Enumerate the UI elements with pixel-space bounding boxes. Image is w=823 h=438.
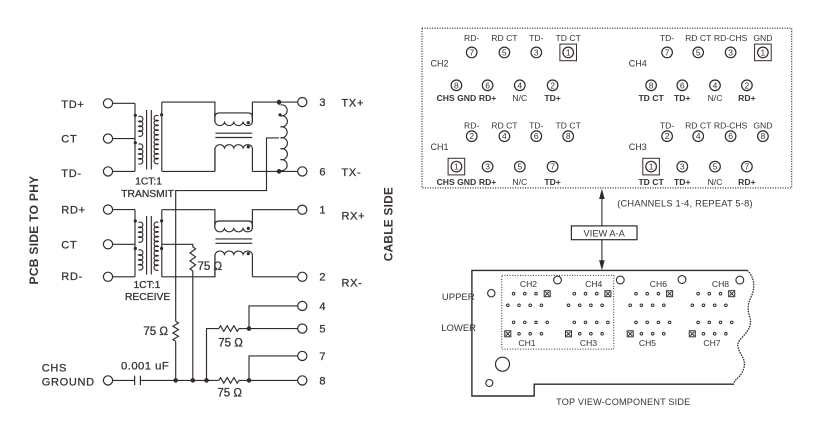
svg-text:CH4: CH4 (629, 59, 647, 69)
common-mode choke L3 top winding (215, 220, 253, 232)
CH5 pin pad (640, 333, 643, 336)
PCB torn right edge (734, 271, 754, 385)
pin 1 RX+ (298, 205, 366, 223)
T1 secondary polarity dot (160, 113, 163, 116)
svg-text:RD-CHS: RD-CHS (714, 121, 748, 131)
svg-text:RD CT: RD CT (491, 121, 518, 131)
label LOWER (441, 323, 476, 334)
CH7 pin pad (697, 321, 700, 324)
svg-text:2: 2 (745, 80, 750, 90)
svg-text:6: 6 (485, 80, 490, 90)
CH8 pin pad (719, 292, 722, 295)
terminal TD+ (103, 99, 112, 108)
svg-text:2: 2 (469, 131, 474, 141)
svg-text:75 Ω: 75 Ω (143, 326, 168, 338)
svg-text:TD-: TD- (660, 121, 674, 131)
CH7 pin pad (702, 333, 705, 336)
note channels 1-4 repeat 5-8 (617, 199, 753, 209)
svg-text:CH2: CH2 (520, 279, 537, 289)
wire CT to T1 primary (113, 138, 135, 140)
svg-text:PCB SIDE TO PHY: PCB SIDE TO PHY (27, 176, 41, 285)
svg-text:5: 5 (517, 162, 522, 172)
svg-text:8: 8 (319, 375, 325, 387)
CH8 pin pad (713, 304, 716, 307)
svg-text:VIEW A-A: VIEW A-A (584, 228, 626, 238)
CH2 channel label CH2 (431, 59, 449, 69)
resistor R4 75 ohm (pins 7/8) (215, 378, 242, 384)
wire TD- to T1 primary (113, 170, 135, 172)
label 1CT:1 RECEIVE (125, 280, 170, 303)
svg-text:CH6: CH6 (650, 279, 667, 289)
CH4 pin pad (584, 292, 587, 295)
node label TD- (61, 168, 81, 180)
svg-text:RD-: RD- (61, 271, 83, 283)
section arrow up to pin view (599, 189, 605, 226)
CH4 bottom label RD+ (738, 93, 755, 103)
svg-text:CHS: CHS (42, 363, 67, 375)
svg-text:GROUND: GROUND (42, 377, 95, 389)
CH6 pin 1 square pad (667, 291, 673, 297)
CH2 pin 1 square pad (544, 291, 550, 297)
svg-text:RECEIVE: RECEIVE (125, 292, 170, 303)
CH5 pin pad (646, 321, 649, 324)
CH2 pin 2 (547, 80, 558, 91)
svg-text:3: 3 (680, 162, 685, 172)
svg-text:N/C: N/C (512, 93, 527, 103)
CH4 top label GND (753, 33, 772, 43)
caption TOP VIEW-COMPONENT SIDE (556, 397, 690, 407)
wire choke L1 top to TX+ node (252, 102, 297, 122)
svg-text:TRANSMIT: TRANSMIT (121, 189, 174, 200)
svg-text:CT: CT (61, 134, 77, 146)
section arrow down to board view (599, 240, 605, 271)
CH3 pin pad (595, 321, 598, 324)
CH3 bottom label N/C (708, 177, 723, 187)
svg-text:RD+: RD+ (479, 177, 496, 187)
CH1 pin 4 (499, 131, 510, 142)
CH3 top label RD CT (685, 121, 712, 131)
CH4 pin 7 (662, 47, 673, 58)
CH6 pin pad (657, 292, 660, 295)
svg-text:3: 3 (534, 47, 539, 57)
svg-text:7: 7 (665, 47, 670, 57)
CH8 pin pad (725, 304, 728, 307)
mounting hole 2 (554, 276, 562, 284)
autotransformer L2 winding (279, 102, 287, 171)
CH8 pin pad (708, 292, 711, 295)
CH3 pin pad (584, 321, 587, 324)
svg-text:2: 2 (665, 131, 670, 141)
CH4 pin pad (595, 292, 598, 295)
CH4 pin pad (567, 304, 570, 307)
CH4 bottom label N/C (708, 93, 723, 103)
CH2 pin pad (524, 292, 527, 295)
choke L3 top winding dot (247, 227, 250, 230)
svg-text:4: 4 (696, 131, 701, 141)
svg-text:N/C: N/C (512, 177, 527, 187)
common-mode choke L1 top winding (215, 112, 253, 126)
svg-text:CH3: CH3 (629, 142, 647, 152)
CH4 pin 5 (693, 47, 704, 58)
transformer T1 core (147, 110, 152, 170)
CH1 pin pad (529, 333, 532, 336)
CH7 pin pad (713, 333, 716, 336)
board channel label CH8 (712, 279, 729, 289)
CH4 pin 2 (742, 80, 753, 91)
svg-text:LOWER: LOWER (441, 323, 476, 334)
node label CT (61, 239, 77, 251)
svg-text:RD-: RD- (464, 33, 479, 43)
CH2 pin 5 (499, 47, 510, 58)
CH2 pin 3 (531, 47, 542, 58)
node label TD+ (61, 99, 84, 111)
svg-text:8: 8 (761, 131, 766, 141)
CH7 pin 1 square pad (689, 331, 695, 337)
svg-text:1CT:1: 1CT:1 (135, 176, 162, 187)
board channel label CH7 (703, 338, 720, 348)
transformer T2 RECEIVE primary winding (135, 210, 143, 277)
resistor R1 75 ohm (transmit CT) (173, 321, 179, 380)
CH3 pin 1 (643, 158, 660, 175)
pin 4 (298, 301, 326, 313)
CH3 pin pad (607, 321, 610, 324)
CH2 pin pad (529, 304, 532, 307)
CH3 pin pad (590, 333, 593, 336)
CH3 top label TD- (660, 121, 674, 131)
svg-text:1: 1 (319, 205, 325, 217)
CH1 pin pad (546, 321, 549, 324)
CH6 pin pad (651, 304, 654, 307)
svg-text:TX-: TX- (342, 167, 362, 179)
CH5 pin pad (651, 333, 654, 336)
T2 primary polarity dots (134, 219, 137, 250)
CH4 top label RD CT (685, 33, 712, 43)
CH2 pin pad (535, 292, 538, 295)
svg-text:CHS GND: CHS GND (437, 93, 477, 103)
CH4 pin 6 (677, 80, 688, 91)
svg-text:6: 6 (534, 131, 539, 141)
CH6 pin pad (635, 292, 638, 295)
CH2 pin pad (512, 292, 515, 295)
svg-text:2: 2 (319, 272, 325, 284)
CH3 pin pad (573, 321, 576, 324)
svg-text:TD+: TD+ (61, 99, 84, 111)
wire T1 secondary top to choke L1 (162, 102, 215, 122)
CH2 bottom label TD+ (544, 93, 560, 103)
CH3 pin 6 (725, 131, 736, 142)
svg-text:0.001 uF: 0.001 uF (121, 360, 169, 372)
CH3 top label GND (753, 121, 772, 131)
CH1 pin pad (518, 333, 521, 336)
svg-text:TD CT: TD CT (638, 93, 664, 103)
svg-text:6: 6 (319, 166, 325, 178)
svg-text:CH5: CH5 (639, 338, 656, 348)
svg-text:3: 3 (728, 47, 733, 57)
CH2 bottom label RD+ (479, 93, 496, 103)
CH5 pin pad (657, 321, 660, 324)
wire L2 center tap to R1 (176, 138, 279, 321)
svg-text:CH1: CH1 (431, 142, 449, 152)
CH2 pin pad (540, 304, 543, 307)
CH2 top label RD- (464, 33, 479, 43)
terminal CT (receive) (103, 240, 112, 249)
svg-text:7: 7 (319, 351, 325, 363)
CH1 pin 1 (448, 158, 465, 175)
CH4 pin 3 (725, 47, 736, 58)
pin 2 RX- (298, 272, 363, 290)
mounting hole 4 (678, 276, 686, 284)
CH4 pin 4 (710, 80, 721, 91)
svg-text:1: 1 (454, 162, 459, 172)
pin 8 (298, 375, 326, 387)
svg-text:TX+: TX+ (342, 98, 365, 110)
choke L3 bottom winding dot (247, 252, 250, 255)
CH3 bottom label TD+ (674, 177, 690, 187)
svg-text:TD+: TD+ (544, 93, 560, 103)
wire choke L3 top to pin 1 (252, 210, 297, 229)
svg-text:3: 3 (485, 162, 490, 172)
CH6 pin pad (629, 304, 632, 307)
CH4 pin pad (578, 304, 581, 307)
label R2 75 ohm (198, 261, 223, 273)
label R3 75 ohm (218, 338, 243, 350)
svg-text:5: 5 (696, 47, 701, 57)
wire rail to R3 branch (207, 329, 215, 381)
wire RD+ to T2 primary (113, 209, 135, 211)
transformer T1 TRANSMIT primary winding (135, 103, 143, 171)
CH6 pin pad (640, 304, 643, 307)
CH1 top label RD- (464, 121, 479, 131)
CH8 pin pad (691, 304, 694, 307)
common-mode choke L3 bottom winding (215, 251, 252, 277)
CH1 pin 1 square pad (505, 331, 511, 337)
svg-text:2: 2 (550, 80, 555, 90)
svg-text:4: 4 (319, 301, 325, 313)
pin 3 TX+ (298, 97, 364, 110)
terminal CHS GROUND (103, 376, 112, 385)
wire T2 secondary bottom to choke L3 (162, 254, 215, 276)
svg-text:RX-: RX- (342, 278, 363, 290)
CH1 bottom label CHS GND (437, 177, 477, 187)
svg-text:TD-: TD- (61, 168, 81, 180)
svg-text:N/C: N/C (708, 177, 723, 187)
wire TD+ to T1 primary (113, 102, 135, 104)
mounting hole 1 (488, 290, 495, 297)
svg-text:RD+: RD+ (61, 204, 85, 216)
CH3 channel label CH3 (629, 142, 647, 152)
large mounting hole (496, 357, 510, 371)
svg-text:TD CT: TD CT (638, 177, 664, 187)
board channel label CH1 (518, 338, 535, 348)
CH4 bottom label TD CT (638, 93, 664, 103)
CH7 pin pad (730, 321, 733, 324)
CH3 top label RD-CHS (714, 121, 748, 131)
svg-text:TD+: TD+ (544, 177, 560, 187)
CH2 pin 6 (482, 80, 493, 91)
CH4 bottom label TD+ (674, 93, 690, 103)
CH1 top label TD CT (556, 121, 582, 131)
common-mode choke L1 bottom winding (215, 145, 252, 172)
svg-text:CH3: CH3 (580, 338, 597, 348)
svg-text:TOP VIEW-COMPONENT SIDE: TOP VIEW-COMPONENT SIDE (556, 397, 690, 407)
CH8 pin pad (702, 304, 705, 307)
board channel label CH2 (520, 279, 537, 289)
wire R3 to pin 5 and pin 4 (242, 306, 298, 331)
CH4 pin 8 (646, 80, 657, 91)
svg-text:1: 1 (649, 162, 654, 172)
svg-text:GND: GND (753, 33, 772, 43)
CH1 pin 3 (482, 161, 493, 172)
VIEW A-A callout box (571, 226, 637, 240)
CH4 pin pad (601, 304, 604, 307)
CH2 pin 1 (560, 44, 577, 61)
svg-text:TD CT: TD CT (556, 33, 582, 43)
CH3 pin 5 (710, 161, 721, 172)
terminal RD+ (103, 205, 112, 214)
CH1 bottom label N/C (512, 177, 527, 187)
CH1 pin 5 (515, 161, 526, 172)
CH2 bottom label CHS GND (437, 93, 477, 103)
CH1 top label RD CT (491, 121, 518, 131)
label R1 75 ohm (143, 326, 168, 338)
CH5 pin 1 square pad (627, 331, 633, 337)
choke L3 core (215, 239, 252, 243)
svg-text:RX+: RX+ (342, 211, 366, 223)
svg-text:7: 7 (469, 47, 474, 57)
board channel label CH5 (639, 338, 656, 348)
svg-text:7: 7 (550, 162, 555, 172)
CH4 top label RD-CHS (714, 33, 748, 43)
transformer T1 secondary winding (154, 102, 162, 171)
svg-text:5: 5 (713, 162, 718, 172)
CH7 pin pad (708, 321, 711, 324)
CH5 pin pad (635, 321, 638, 324)
PCB board outline (472, 270, 748, 396)
connector pin view dotted frame (422, 28, 792, 188)
CH3 pin pad (601, 333, 604, 336)
resistor R3 75 ohm (pins 4/5) (215, 326, 242, 332)
svg-text:1: 1 (566, 47, 571, 57)
CH4 pin 1 (755, 44, 772, 61)
CH3 bottom label RD+ (738, 177, 755, 187)
CH8 pin pad (697, 292, 700, 295)
svg-text:CH2: CH2 (431, 59, 449, 69)
svg-text:RD+: RD+ (738, 93, 755, 103)
svg-text:RD CT: RD CT (685, 33, 712, 43)
ground rail wire (140, 379, 297, 381)
transformer T2 core (147, 216, 152, 275)
pin 6 TX- (298, 166, 362, 179)
svg-text:75 Ω: 75 Ω (198, 261, 223, 273)
svg-text:1CT:1: 1CT:1 (133, 280, 160, 291)
svg-text:TD-: TD- (529, 121, 543, 131)
svg-text:5: 5 (502, 47, 507, 57)
svg-text:TD-: TD- (660, 33, 674, 43)
node label RD- (61, 271, 83, 283)
CH3 pin 1 square pad (566, 331, 572, 337)
CH1 bottom label TD+ (544, 177, 560, 187)
terminal TD- (103, 167, 112, 176)
svg-text:CH8: CH8 (712, 279, 729, 289)
CH8 pin 1 square pad (729, 291, 735, 297)
wire RD- to T2 primary (113, 276, 135, 278)
svg-text:TD+: TD+ (674, 177, 690, 187)
CH7 pin pad (719, 321, 722, 324)
CH4 pin pad (573, 292, 576, 295)
CH3 bottom label TD CT (638, 177, 664, 187)
label UPPER (442, 292, 475, 303)
CH1 pin pad (512, 321, 515, 324)
svg-text:CHS GND: CHS GND (437, 177, 477, 187)
CH2 top label RD CT (491, 33, 518, 43)
CH1 pin 2 (466, 131, 477, 142)
CH7 pin pad (725, 333, 728, 336)
svg-text:TD-: TD- (529, 33, 543, 43)
svg-text:5: 5 (319, 324, 325, 336)
CH3 pin 7 (742, 161, 753, 172)
wire rail to pin 7 (249, 356, 298, 381)
label C1 0.001 uF (121, 360, 169, 372)
CH2 pin pad (518, 304, 521, 307)
CH1 pin pad (540, 333, 543, 336)
CH3 pin 8 (758, 131, 769, 142)
svg-text:UPPER: UPPER (442, 292, 475, 303)
svg-text:4: 4 (517, 80, 522, 90)
svg-text:CH1: CH1 (518, 338, 535, 348)
wire T2 center tap to R2 (162, 244, 193, 247)
choke L1 top winding dot (247, 121, 250, 124)
svg-text:8: 8 (454, 80, 459, 90)
label R4 75 ohm (217, 388, 242, 400)
svg-text:75 Ω: 75 Ω (217, 388, 242, 400)
node TX- junction (277, 169, 282, 174)
svg-text:RD CT: RD CT (491, 33, 518, 43)
CH5 pin pad (663, 333, 666, 336)
CH3 pin 3 (677, 161, 688, 172)
rail junction dots (173, 378, 251, 383)
CH6 pin pad (646, 292, 649, 295)
CH2 pin 8 (451, 80, 462, 91)
svg-text:(CHANNELS 1-4, REPEAT 5-8): (CHANNELS 1-4, REPEAT 5-8) (617, 199, 753, 209)
svg-text:4: 4 (713, 80, 718, 90)
svg-text:CH4: CH4 (585, 279, 602, 289)
CH2 pin pad (507, 304, 510, 307)
CH6 pin pad (663, 304, 666, 307)
label 1CT:1 TRANSMIT (121, 176, 174, 200)
small mounting hole lower left (486, 380, 493, 387)
CH4 channel label CH4 (629, 59, 647, 69)
choke L1 core (215, 133, 252, 137)
autotransformer L2 dot (278, 113, 281, 116)
node label RD+ (61, 204, 85, 216)
node label CHS GROUND (42, 363, 95, 389)
terminal CT (transmit) (103, 134, 112, 143)
side label PCB SIDE TO PHY (27, 176, 41, 285)
board channel label CH4 (585, 279, 602, 289)
dashed group outline channels 1-4 (502, 275, 614, 349)
CH4 top label TD- (660, 33, 674, 43)
svg-text:8: 8 (649, 80, 654, 90)
wire T2 secondary top to choke L3 (162, 210, 215, 229)
CH2 pin 4 (515, 80, 526, 91)
CH1 top label TD- (529, 121, 543, 131)
board channel label CH6 (650, 279, 667, 289)
wire CT to T2 primary (113, 243, 135, 245)
choke L1 bottom winding dot (247, 145, 250, 148)
mounting hole 3 (616, 276, 624, 284)
board channel label CH3 (580, 338, 597, 348)
transformer T2 secondary winding (154, 210, 162, 277)
